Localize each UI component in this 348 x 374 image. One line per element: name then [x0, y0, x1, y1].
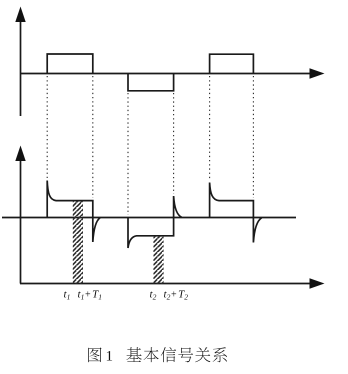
axis 1 right arrowhead — [310, 68, 325, 78]
caption char 图 — [88, 348, 101, 363]
pulse P3 (positive, t2 window) — [210, 54, 254, 73]
dotted line at P1 fall — [92, 76, 94, 198]
svg-text:1: 1 — [106, 349, 114, 365]
axis 1 vertical line — [20, 21, 22, 116]
axis 3 time line — [20, 283, 311, 285]
axis 1 up arrowhead — [15, 7, 25, 23]
caption char 系 — [213, 347, 227, 362]
caption char 本 — [144, 347, 159, 362]
dotted line at t1 rise — [46, 76, 48, 178]
caption char 信 — [161, 347, 176, 362]
hatched bar B1 (t1..t1+T1) — [73, 201, 83, 284]
axis 2 vertical line — [20, 161, 22, 284]
caption char 关 — [195, 347, 210, 362]
hatched bar B2 (t2..t2+T2) — [153, 237, 163, 284]
waveform segment W2 (negative decay pulse over P2) — [128, 196, 182, 248]
axis 1 horizontal line — [20, 73, 311, 75]
waveform segment W3 (decay pulse over P3) — [210, 183, 262, 243]
dotted line at P2 end — [173, 93, 175, 194]
caption char 基 — [126, 347, 141, 362]
axis 3 right arrowhead — [310, 278, 325, 288]
caption char 号 — [178, 347, 193, 362]
axis 2 up arrowhead — [15, 146, 25, 162]
axis 2 zero line — [2, 217, 296, 219]
dotted line at P2 fall — [127, 93, 129, 215]
waveform segment W1 (decay pulse over P1) — [47, 181, 100, 243]
dotted line at P3 fall — [252, 76, 254, 198]
pulse P2 (negative) — [128, 74, 174, 91]
pulse P1 (positive, t1 window) — [47, 54, 93, 74]
dotted line at t2 rise — [209, 76, 211, 180]
